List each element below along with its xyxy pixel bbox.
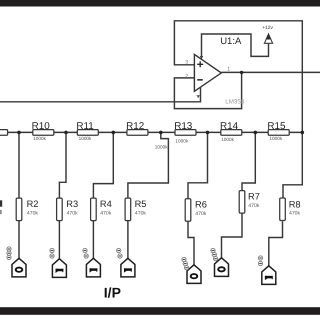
resistor R15 <box>267 121 289 141</box>
svg-text:470k: 470k <box>67 211 78 217</box>
wire bit5 down <box>188 132 208 198</box>
resistor R14 <box>220 121 242 142</box>
wire bit2 down <box>59 132 66 198</box>
logic state pin 2 (1) <box>50 248 67 277</box>
resistor R5 <box>125 198 146 221</box>
svg-text:I/P: I/P <box>104 284 121 300</box>
svg-text:R11: R11 <box>76 121 94 132</box>
wire bit6 to logic pin <box>222 213 243 259</box>
wire ladder rail <box>0 131 302 133</box>
svg-text:R12: R12 <box>126 121 144 132</box>
logic state pin 7 (1) <box>258 256 275 285</box>
resistor R7 <box>239 191 260 214</box>
svg-text:R10: R10 <box>32 121 51 132</box>
svg-text:1000k: 1000k <box>33 136 46 142</box>
svg-text:1000k: 1000k <box>221 136 234 142</box>
wire output <box>221 71 320 73</box>
svg-text:1000k: 1000k <box>155 144 168 150</box>
svg-text:470k: 470k <box>135 211 146 217</box>
resistor R6 <box>185 199 207 222</box>
wire pin8 to +12v <box>202 34 269 58</box>
svg-text:470k: 470k <box>27 211 38 217</box>
svg-text:U1:A: U1:A <box>220 36 242 47</box>
resistor R4 <box>91 198 112 221</box>
logic state pin 5 (0) <box>182 257 201 283</box>
top black bar <box>0 0 320 7</box>
svg-text:R4: R4 <box>100 199 112 209</box>
svg-text:R7: R7 <box>248 191 260 201</box>
wire ground rail to pin4 <box>0 88 201 102</box>
logic state pin 4 (1) <box>117 248 135 277</box>
svg-text:R8: R8 <box>289 200 301 210</box>
svg-text:R3: R3 <box>66 199 78 209</box>
svg-text:R5: R5 <box>135 199 147 209</box>
svg-text:R15: R15 <box>267 121 286 132</box>
resistor R13 <box>174 121 196 144</box>
resistor R12 <box>126 121 168 150</box>
svg-text:1000k: 1000k <box>269 136 282 142</box>
resistor R3 <box>57 198 79 221</box>
+12v power terminal <box>264 34 272 43</box>
resistor R10 <box>32 121 54 141</box>
svg-text:R13: R13 <box>174 121 193 132</box>
logic state pin 3 (1) <box>83 248 101 277</box>
wire bit3 down <box>93 132 113 198</box>
op-amp U1 triangle <box>194 54 221 91</box>
wire bit4 to logic pin <box>127 221 129 259</box>
svg-text:+12v: +12v <box>262 25 273 31</box>
svg-text:470k: 470k <box>195 211 206 217</box>
wire bit3 to logic pin <box>92 221 94 259</box>
wire bit7 to logic pin <box>269 221 283 266</box>
svg-text:LM358: LM358 <box>225 99 244 106</box>
svg-text:2: 2 <box>185 74 188 80</box>
svg-text:1000k: 1000k <box>79 136 92 142</box>
node A op-amp output <box>240 71 243 74</box>
svg-text:1: 1 <box>227 66 230 72</box>
op-amp non-inverting input plus mark <box>197 61 203 67</box>
wire non-inverting loop pin3 to ladder end node <box>174 21 302 198</box>
resistor R8 <box>280 198 301 221</box>
wire bit5 to logic pin <box>188 221 194 265</box>
pin 8 power mark <box>200 56 203 59</box>
op-amp inverting input minus mark <box>197 79 203 81</box>
resistor R1 partial label fragment at left edge <box>0 200 2 206</box>
svg-text:R2: R2 <box>27 199 39 209</box>
svg-text:470k: 470k <box>289 210 300 216</box>
wire bit4 down <box>128 132 168 198</box>
resistor R9 partial at left edge <box>0 130 8 136</box>
wire bit6 down <box>242 132 255 190</box>
logic state pin 1 (0) <box>7 247 26 277</box>
svg-text:470k: 470k <box>100 211 111 217</box>
svg-text:470k: 470k <box>248 203 259 209</box>
bottom black bar <box>0 307 320 315</box>
svg-text:3: 3 <box>185 60 188 65</box>
wire bit2 to logic pin <box>58 221 60 259</box>
resistor R2 <box>16 198 38 221</box>
wire feedback pin2 to output node <box>174 72 241 108</box>
svg-text:1000k: 1000k <box>175 138 188 144</box>
node ladder junctions <box>17 131 21 135</box>
logic state pin 6 (0) <box>211 248 229 276</box>
svg-text:R6: R6 <box>195 200 207 210</box>
wire bit1 to logic pin <box>18 221 20 259</box>
svg-text:R14: R14 <box>220 121 239 132</box>
pin 4 power mark <box>197 95 200 98</box>
wire bit1 down <box>18 132 20 198</box>
resistor R11 <box>76 121 98 141</box>
